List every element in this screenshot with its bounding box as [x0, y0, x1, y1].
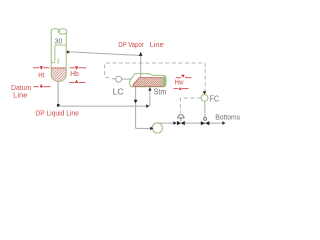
svg-text:Hw: Hw [175, 78, 185, 87]
drain arrowhead [134, 100, 138, 104]
svg-text:Bottoms: Bottoms [215, 113, 240, 122]
vapor tap junction dot [67, 51, 70, 54]
Ht bottom arrow [40, 84, 43, 87]
suction arrowhead [150, 127, 153, 131]
tray 30 deck [55, 44, 66, 46]
vessel top nozzle ellipse [58, 29, 67, 34]
Hw dimension top dashes [176, 77, 181, 79]
condensate pot shell [130, 74, 166, 87]
vessel bottom head [51, 75, 66, 82]
FV valve handwheel circle [204, 117, 207, 120]
svg-text:Line: Line [13, 90, 27, 99]
svg-text:DP Liquid Line: DP Liquid Line [35, 109, 79, 118]
Hb dimension top dashes [70, 67, 75, 69]
svg-text:Ht: Ht [38, 71, 44, 80]
control valve LV actuator dome [178, 115, 184, 118]
steam riser wire [149, 90, 151, 106]
svg-text:DP Vapor: DP Vapor [118, 40, 144, 49]
FC instrument bubble [201, 95, 208, 102]
svg-text:Stm: Stm [154, 87, 166, 96]
svg-text:Hb: Hb [70, 69, 79, 78]
FC to valve stem wire [204, 101, 206, 117]
Hb bottom arrow [75, 80, 78, 83]
internal standpipe [57, 58, 59, 64]
Ht dimension top dashes [33, 67, 39, 69]
svg-text:LC: LC [113, 87, 124, 96]
DP vapor line wire (sloped) [68, 52, 141, 56]
vessel liquid level line [52, 67, 66, 69]
pump suction wire [136, 127, 152, 129]
Hw bottom dashes [174, 88, 179, 90]
riser arrowhead [139, 52, 143, 56]
LC instrument bubble [116, 76, 122, 82]
vessel column shell [51, 29, 60, 75]
flow arrowhead at tee [146, 104, 149, 108]
arrow into FC [203, 91, 207, 94]
pot right end cap [163, 76, 167, 87]
corner junction dot [57, 104, 60, 107]
FV valve body [201, 121, 210, 125]
bottoms end arrowhead [222, 121, 225, 125]
Ht top arrow [40, 66, 43, 70]
datum line dashes [33, 86, 38, 88]
svg-text:30: 30 [55, 37, 63, 46]
Hb bottom dashes [69, 82, 74, 84]
Hw top arrow [181, 75, 184, 78]
seal pan lip [51, 62, 55, 64]
pot liquid hatch [133, 78, 163, 87]
bottoms pipe wire [157, 122, 222, 124]
bottoms outlet wire from vessel [57, 81, 59, 106]
Hb top arrow [75, 66, 78, 70]
LV valve body [177, 121, 185, 125]
LV stem [180, 118, 182, 121]
FC signal dashed wire [180, 98, 201, 113]
DP liquid line wire [58, 105, 148, 107]
riser wire from pot to vapor line [140, 56, 142, 78]
downcomer wall [54, 45, 56, 62]
Hw bottom arrow [179, 87, 182, 90]
LC signal dashed wire [105, 63, 206, 92]
LC tap wire [122, 78, 131, 80]
steam arrowhead [148, 87, 151, 91]
svg-text:FC: FC [210, 95, 220, 104]
flow arrowhead after pump [173, 121, 176, 125]
vessel liquid hatch [51, 68, 67, 82]
pot drain wire [135, 87, 137, 100]
svg-text:Line: Line [150, 40, 164, 49]
pump [152, 123, 162, 133]
